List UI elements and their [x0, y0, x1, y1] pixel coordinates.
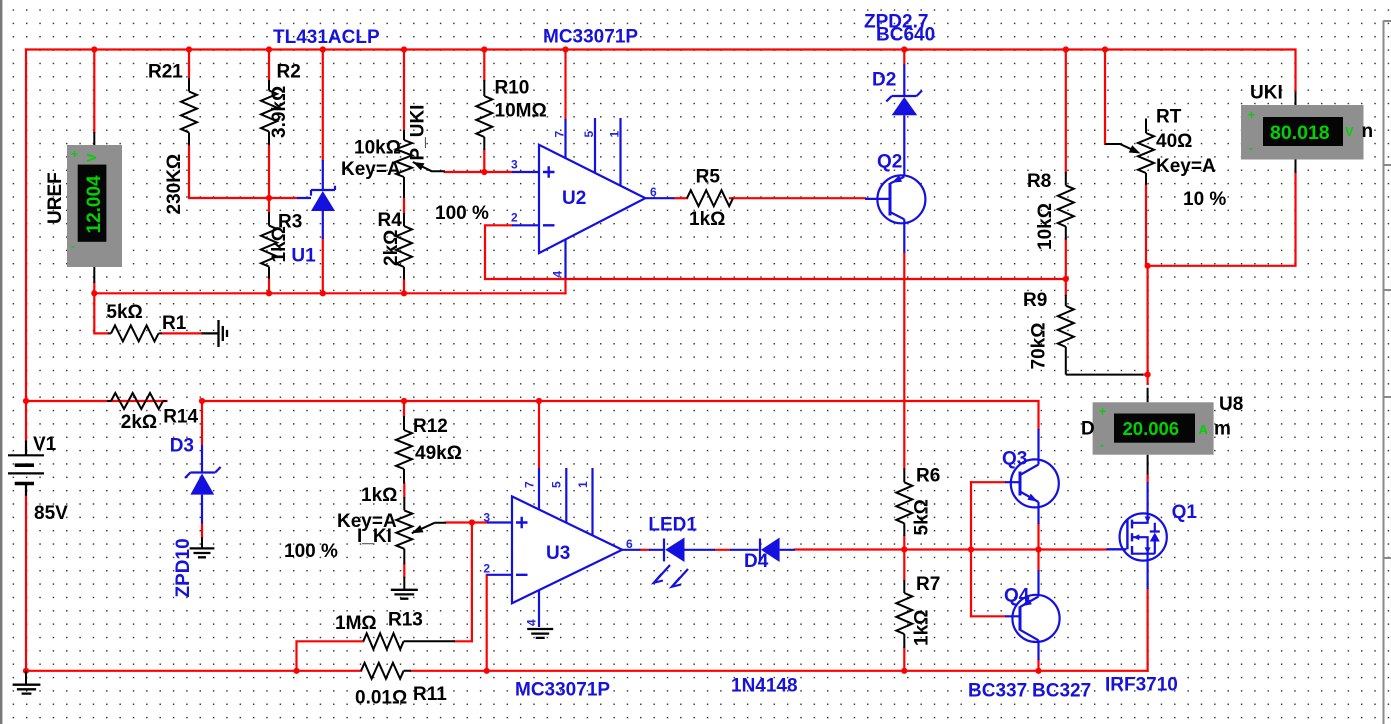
wire R9 top: [1065, 279, 1067, 295]
svg-text:I_KI: I_KI: [357, 526, 392, 547]
svg-text:1MΩ: 1MΩ: [335, 613, 377, 634]
svg-text:1N4148: 1N4148: [731, 676, 798, 697]
zener diode D2: [886, 64, 922, 177]
wire R7 bottom: [903, 648, 905, 671]
svg-text:R8: R8: [1027, 171, 1051, 192]
wire RT node down to U8: [1146, 266, 1148, 384]
wire Q3-Q4 base tie: [970, 482, 972, 616]
svg-text:3: 3: [511, 158, 518, 172]
svg-text:R14: R14: [163, 407, 198, 428]
P_UKI wiper arrow: [413, 162, 445, 171]
svg-text:1: 1: [608, 131, 622, 138]
wire UKI bottom to RT node: [1148, 173, 1296, 266]
svg-text:10kΩ: 10kΩ: [1035, 203, 1056, 250]
wire U2 pin2 feedback to R8-R9 node: [485, 225, 1066, 279]
svg-text:R4: R4: [378, 210, 403, 231]
wire Q4 collector to bottom rail: [1037, 660, 1039, 671]
wire R12 to I_KI pot: [403, 484, 405, 498]
svg-text:D: D: [1081, 419, 1095, 440]
op-amp U2 MC33071P: [512, 118, 674, 279]
wire R1 branch: [94, 293, 201, 333]
svg-text:R7: R7: [916, 574, 940, 595]
wire UREF top: [93, 50, 95, 133]
svg-text:TL431ACLP: TL431ACLP: [273, 27, 380, 48]
svg-text:49kΩ: 49kΩ: [415, 443, 462, 464]
LED LED1: [649, 538, 715, 587]
svg-text:12.004: 12.004: [84, 175, 105, 234]
svg-text:BC337: BC337: [968, 681, 1027, 702]
wire R13 left to bottom rail: [297, 641, 364, 671]
svg-text:R9: R9: [1023, 290, 1047, 311]
wire U3 pin7 supply: [538, 401, 540, 468]
resistor R5: [687, 190, 733, 206]
svg-text:R6: R6: [916, 466, 940, 487]
resistor R10: [476, 80, 492, 150]
resistor R12: [396, 416, 412, 484]
svg-text:ZPD10: ZPD10: [173, 538, 194, 597]
svg-text:4: 4: [551, 271, 565, 278]
wire Q3 base: [971, 481, 1005, 483]
svg-text:MC33071P: MC33071P: [515, 680, 610, 701]
wire I_KI pot bottom: [403, 564, 405, 576]
wire RT bottom: [1145, 185, 1147, 266]
diode D4 1N4148: [730, 538, 795, 563]
wire left rail lower: [25, 496, 27, 671]
svg-text:LED1: LED1: [648, 515, 697, 536]
potentiometer I_KI body: [396, 497, 412, 564]
svg-text:1kΩ: 1kΩ: [361, 485, 397, 506]
resistor R7: [896, 580, 912, 648]
svg-text:5: 5: [582, 131, 596, 138]
svg-text:10 %: 10 %: [1183, 189, 1226, 210]
transistor Q3 BC337 NPN: [1005, 429, 1059, 524]
svg-text:D4: D4: [744, 551, 769, 572]
wire R6 bottom: [903, 536, 905, 550]
wire R7 top: [903, 550, 905, 581]
wire Q4 emitter to node: [1037, 550, 1039, 571]
svg-text:R1: R1: [162, 313, 187, 334]
wire R2 top stub: [268, 50, 270, 81]
svg-text:40Ω: 40Ω: [1156, 131, 1192, 152]
zener diode D3 ZPD10: [185, 445, 221, 524]
svg-text:1: 1: [576, 481, 590, 488]
svg-text:V: V: [84, 153, 99, 162]
wire R10 top stub: [483, 50, 485, 81]
ground at R1: [202, 320, 227, 347]
wire Q4 base: [971, 615, 1005, 617]
wire UREF bottom: [93, 283, 95, 293]
potentiometer P_UKI body: [396, 130, 412, 198]
wire RT wiper drop: [1104, 50, 1106, 145]
wire LED1 to D4: [715, 549, 730, 551]
ground at D3: [190, 537, 215, 557]
svg-text:20.006: 20.006: [1123, 418, 1180, 439]
wire U1 cathode top: [322, 50, 324, 161]
svg-text:Key=A: Key=A: [1156, 156, 1216, 177]
svg-text:5kΩ: 5kΩ: [106, 302, 142, 323]
svg-text:3: 3: [483, 511, 490, 525]
svg-text:6: 6: [626, 537, 633, 551]
window edge left: [0, 0, 2, 724]
wire R13 right up to node: [455, 640, 472, 642]
svg-text:Q2: Q2: [877, 152, 902, 173]
wire R9 bottom to U8 column: [1143, 374, 1148, 376]
wire Q2 collector down to R6: [903, 253, 905, 469]
svg-text:100 %: 100 %: [435, 203, 489, 224]
svg-text:100 %: 100 %: [284, 541, 338, 562]
svg-text:0.01Ω: 0.01Ω: [355, 688, 407, 709]
resistor R21: [181, 78, 197, 145]
svg-text:7: 7: [523, 481, 537, 488]
wire U2 pin7 supply: [564, 50, 566, 120]
wire R12 top: [403, 401, 405, 416]
wire P_UKI top: [403, 50, 405, 131]
svg-text:-: -: [71, 239, 75, 253]
wire Q1 source down: [1146, 589, 1148, 671]
svg-text:85V: 85V: [34, 503, 68, 524]
MOSFET Q1 IRF3710: [1107, 482, 1167, 589]
voltmeter UREF body: [67, 132, 122, 283]
wire P_UKI to R4: [403, 198, 405, 213]
voltmeter UKI body: [1241, 92, 1364, 174]
wire D2 top: [903, 50, 905, 65]
wire D3 top: [201, 401, 203, 445]
wire D3 bottom: [201, 524, 203, 538]
svg-text:R5: R5: [696, 167, 721, 188]
wire D4 to Q1 gate line: [795, 548, 1107, 550]
resistor R6: [896, 468, 912, 536]
wire node to R13 feedback: [471, 523, 473, 642]
svg-text:U1: U1: [291, 246, 316, 267]
svg-text:+: +: [1248, 108, 1255, 122]
resistor R2: [261, 80, 277, 145]
svg-text:V1: V1: [33, 434, 57, 455]
wire U1 anode bottom: [322, 239, 324, 293]
ammeter U8 body: [1093, 388, 1214, 475]
svg-text:2kΩ: 2kΩ: [121, 412, 157, 433]
wire R5 to Q2 base: [730, 197, 865, 199]
svg-text:2kΩ: 2kΩ: [381, 230, 402, 266]
svg-text:IRF3710: IRF3710: [1105, 675, 1178, 696]
battery V1 thick plates: [15, 465, 34, 483]
svg-text:BC640: BC640: [876, 25, 935, 46]
window edge right: [1384, 21, 1391, 724]
svg-text:2: 2: [483, 562, 490, 576]
resistor R1: [108, 325, 162, 341]
svg-text:5: 5: [550, 481, 564, 488]
wire U8 bottom: [1146, 475, 1148, 482]
svg-text:n: n: [1362, 121, 1374, 142]
svg-text:BC327: BC327: [1032, 681, 1091, 702]
svg-text:4: 4: [525, 619, 539, 626]
wire R10 bottom: [483, 150, 485, 172]
resistor R3: [261, 212, 277, 279]
svg-text:3.9kΩ: 3.9kΩ: [269, 86, 290, 138]
svg-text:R11: R11: [413, 684, 447, 705]
wire section2 top rail: [26, 401, 1039, 429]
svg-text:5kΩ: 5kΩ: [912, 499, 933, 535]
svg-text:m: m: [1214, 419, 1231, 440]
svg-text:-: -: [1100, 438, 1104, 452]
svg-text:UREF: UREF: [45, 172, 66, 224]
svg-text:2: 2: [511, 211, 518, 225]
wire wiper to U2 pin3: [445, 171, 512, 173]
svg-text:R12: R12: [413, 416, 448, 437]
wire R21 bottom jog to node: [189, 145, 297, 198]
wire top rail: [26, 50, 1296, 92]
svg-text:-: -: [1249, 141, 1253, 155]
RT wiper arrow: [1105, 144, 1141, 154]
resistor R8: [1058, 172, 1074, 240]
svg-text:R2: R2: [277, 62, 301, 83]
svg-text:7: 7: [553, 131, 567, 138]
svg-text:6: 6: [650, 185, 657, 199]
resistor R9: [1058, 295, 1074, 375]
ground at I_KI: [391, 577, 418, 599]
wire U2 pin4 drop: [564, 279, 566, 293]
shunt regulator U1 TL431: [297, 160, 335, 239]
wire left rail upper: [25, 50, 27, 441]
svg-text:U2: U2: [562, 188, 586, 209]
svg-text:Q3: Q3: [1002, 449, 1027, 470]
svg-text:Q1: Q1: [1172, 502, 1198, 523]
svg-text:+: +: [1099, 405, 1106, 419]
svg-text:70kΩ: 70kΩ: [1029, 323, 1050, 370]
battery V1: [8, 441, 44, 496]
wire bottom rail left of R11: [26, 670, 361, 672]
rheostat RT body: [1138, 119, 1154, 185]
ground at U3 pin4: [527, 629, 553, 638]
svg-text:A: A: [1199, 422, 1209, 437]
transistor Q2 BC640 PNP: [865, 175, 925, 253]
wire R4 bottom: [403, 280, 405, 294]
svg-text:MC33071P: MC33071P: [543, 27, 638, 48]
svg-text:80.018: 80.018: [1270, 122, 1330, 144]
wire R3 bottom: [268, 279, 270, 294]
svg-text:10kΩ: 10kΩ: [354, 138, 401, 159]
svg-text:R21: R21: [148, 62, 183, 83]
resistor R11: [361, 663, 411, 679]
resistor R4: [396, 213, 412, 280]
wire bottom rail right of R11: [411, 670, 1148, 672]
op-amp U3 MC33071P: [487, 468, 641, 627]
svg-text:P_UKI: P_UKI: [408, 105, 429, 161]
resistor R13: [363, 633, 455, 649]
svg-text:R13: R13: [388, 610, 423, 631]
resistor R14: [107, 393, 167, 409]
svg-text:UKI: UKI: [1250, 83, 1283, 104]
I_KI wiper arrow: [412, 523, 446, 533]
R9 bottom lead: [1066, 374, 1143, 376]
wire R2-R3 node: [268, 145, 270, 212]
svg-text:Key=A: Key=A: [341, 159, 401, 180]
svg-text:V: V: [1345, 124, 1354, 139]
wire R21 top stub: [188, 50, 190, 79]
wire U3 pin2 drop to shunt: [486, 575, 488, 671]
svg-text:U8: U8: [1219, 394, 1243, 415]
wire R8 bottom: [1065, 240, 1067, 279]
wire U3 out to LED1: [641, 549, 650, 551]
svg-text:D2: D2: [872, 70, 896, 91]
svg-text:U3: U3: [546, 543, 570, 564]
wire Q3 emitter to node: [1037, 524, 1039, 550]
svg-text:D3: D3: [170, 436, 194, 457]
svg-text:+: +: [71, 147, 78, 161]
svg-text:R10: R10: [495, 78, 530, 99]
svg-text:230KΩ: 230KΩ: [164, 154, 185, 215]
svg-text:1kΩ: 1kΩ: [689, 209, 725, 230]
svg-text:Q4: Q4: [1004, 586, 1030, 607]
svg-text:RT: RT: [1156, 107, 1182, 128]
svg-text:1kΩ: 1kΩ: [269, 226, 290, 262]
svg-text:10MΩ: 10MΩ: [495, 101, 547, 122]
wire section1 bottom rail: [94, 292, 565, 294]
ground bottom-left: [13, 671, 41, 694]
svg-text:1kΩ: 1kΩ: [912, 610, 933, 646]
wire I_KI wiper to U3 pin3 node: [446, 521, 487, 523]
wire R8 top: [1065, 50, 1067, 173]
transistor Q4 BC327 PNP: [1005, 570, 1060, 660]
wire U2 out to R5: [674, 197, 687, 199]
